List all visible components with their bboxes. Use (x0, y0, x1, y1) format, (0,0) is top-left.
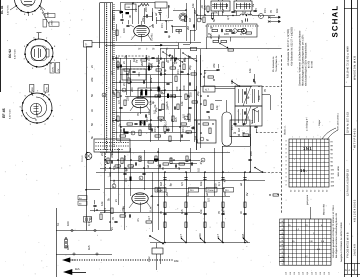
output transformer box (211, 1, 230, 11)
svg-text:110: 110 (323, 272, 326, 275)
terminal cross lower (268, 20, 271, 23)
dial scale outer right rail (112, 3, 114, 152)
svg-text:1N1: 1N1 (303, 146, 312, 151)
waveband wires (160, 49, 162, 60)
detector extras (208, 76, 214, 78)
output branch resistors (164, 202, 166, 208)
svg-text:3n: 3n (185, 158, 189, 162)
svg-text:8p: 8p (167, 34, 171, 38)
control box extra parts (238, 29, 244, 31)
ext fuse component (65, 237, 67, 248)
secondary box (230, 120, 250, 137)
svg-text:3n: 3n (136, 218, 140, 222)
svg-text:G: G (345, 269, 347, 272)
svg-text:G: G (352, 269, 354, 272)
mixer tube VA envelope (134, 25, 150, 36)
AM line solid y86 (200, 86, 252, 88)
audio mesh wires (104, 152, 106, 213)
tube V3 value box a (30, 85, 34, 93)
svg-text:10k: 10k (221, 210, 225, 215)
IF transformer T1 core arrow (243, 86, 251, 106)
svg-text:h: h (140, 177, 141, 180)
svg-text:220: 220 (223, 191, 227, 196)
tube socket V3 inner circle (30, 103, 41, 114)
svg-text:ECH81: ECH81 (151, 33, 154, 41)
tube V3 value box b (44, 85, 48, 93)
svg-text:0,1: 0,1 (250, 120, 254, 124)
svg-text:3n: 3n (200, 4, 204, 8)
svg-text:4,7: 4,7 (216, 234, 220, 238)
svg-text:gemessen: gemessen (306, 194, 309, 205)
IF transformer T2 core arrow (243, 106, 251, 126)
dial scale top cap (100, 2, 113, 4)
IF transformer T2 windings (238, 109, 240, 123)
svg-text:0,1: 0,1 (103, 208, 107, 212)
secondary box parts (233, 123, 236, 125)
tap junction wire (86, 189, 100, 191)
svg-text:100: 100 (122, 28, 126, 33)
top left feeder wires (196, 0, 198, 15)
voltage table vertical rules (288, 219, 290, 265)
svg-text:6V: 6V (251, 3, 255, 7)
svg-text:4,7: 4,7 (223, 178, 227, 182)
wire top c (144, 8, 146, 24)
top dark core a (120, 11, 124, 13)
svg-text:1M: 1M (221, 8, 225, 13)
oscillator coil box L1 (125, 4, 136, 10)
speaker field windings (236, 3, 238, 9)
lower left component box (84, 217, 92, 223)
svg-text:SCHAL: SCHAL (331, 5, 340, 38)
osc wires (116, 24, 118, 41)
waveband switch blades (163, 52, 169, 56)
edge table bottom cell rule a (347, 264, 349, 275)
svg-text:a2: a2 (182, 58, 186, 62)
pointer curve b (327, 130, 338, 140)
fuse in supply rail (191, 47, 197, 50)
ratio detector box (197, 120, 216, 143)
svg-text:1M: 1M (113, 92, 117, 97)
svg-text:0,1: 0,1 (217, 182, 221, 186)
svg-text:70: 70 (111, 216, 115, 220)
speaker line wire (150, 242, 250, 244)
svg-text:0,5: 0,5 (206, 198, 210, 202)
svg-text:2n: 2n (110, 227, 114, 231)
svg-text:W M 5 E 0 N. M K B: W M 5 E 0 N. M K B (353, 56, 356, 80)
svg-text:47k: 47k (90, 77, 94, 82)
wire top b (138, 6, 140, 24)
svg-text:50: 50 (90, 122, 94, 126)
left step wire d (183, 44, 190, 46)
svg-text:2M: 2M (186, 25, 190, 30)
mixer tube VA pin leads (131, 35, 135, 40)
svg-text:8p: 8p (119, 9, 123, 13)
edge table bottom cell rule b (354, 264, 356, 275)
dial scale ruler ticks (113, 4, 115, 6)
tube socket V2 side tab (46, 49, 50, 57)
svg-text:6V: 6V (154, 158, 158, 162)
svg-text:0,5: 0,5 (117, 100, 121, 104)
input trimmer a (120, 19, 123, 21)
core bar e (140, 121, 142, 126)
core bar f (144, 121, 146, 126)
svg-text:1M: 1M (241, 233, 245, 238)
svg-text:100: 100 (189, 92, 193, 97)
tube V1 pin value box a (45, 14, 55, 18)
svg-text:12k: 12k (149, 100, 153, 105)
svg-text:6V: 6V (159, 118, 163, 122)
svg-text:a2: a2 (177, 166, 181, 170)
audio cluster capacitors (111, 160, 113, 163)
IF cluster capacitors (120, 64, 122, 67)
speaker coil bumps (240, 14, 252, 15)
audio tube VC leads (140, 202, 142, 212)
mains entry box (152, 248, 163, 254)
coil tap wires (156, 20, 173, 22)
mains wires (156, 254, 158, 270)
svg-text:10k: 10k (199, 181, 203, 186)
svg-text:EF 45: EF 45 (2, 108, 6, 118)
tube V2 value box b (56, 63, 60, 74)
speaker line switch blades (182, 239, 187, 243)
pickup terminal (256, 129, 258, 134)
svg-text:0,1: 0,1 (164, 121, 168, 125)
osc resistor (116, 30, 118, 36)
svg-text:4,7: 4,7 (240, 32, 244, 36)
core bar d (158, 87, 160, 92)
svg-text:15n: 15n (150, 63, 154, 68)
tube socket V3 pin dots (51, 110, 53, 112)
mixer tube VA anode bar (138, 26, 146, 28)
IF cluster resistors (117, 62, 119, 68)
wire top h (173, 10, 186, 12)
svg-text:a2: a2 (240, 19, 244, 23)
svg-text:6V: 6V (138, 156, 142, 160)
svg-text:10k: 10k (275, 8, 279, 13)
supply rail wire y49 (160, 48, 282, 50)
IF filter core bar a (141, 90, 143, 96)
tube socket V2 inner envelope circle (31, 45, 46, 60)
lead wire to V1 boxes (40, 6, 45, 15)
svg-text:Masse 4W: Masse 4W (323, 203, 326, 215)
voltage table horizontal rules (284, 222, 331, 224)
svg-text:8p: 8p (159, 56, 163, 60)
tube socket V3 electrode detail bars (34, 106, 39, 108)
svg-text:2M: 2M (191, 125, 195, 130)
svg-text:Bei Abgleich beachten Seilfue: Bei Abgleich beachten Seilfuehrung Skala… (335, 212, 338, 258)
svg-text:52 W Nr. 257 0.53: 52 W Nr. 257 0.53 (347, 112, 350, 133)
tube socket V2 electrode bars (34, 49, 36, 57)
dotted feedback line (206, 26, 207, 27)
svg-text:0,1: 0,1 (87, 222, 91, 226)
svg-text:4,7: 4,7 (147, 216, 151, 220)
svg-text:1k5: 1k5 (180, 209, 184, 214)
svg-text:2n: 2n (124, 167, 128, 171)
tube socket V3 (EF45) outer circle (22, 93, 52, 123)
tube socket V2 pin dots (52, 56, 54, 58)
bus drop wire (178, 43, 180, 49)
pointer curve a (322, 128, 336, 139)
svg-text:3n: 3n (119, 128, 123, 132)
svg-text:6,3V 0,2A: 6,3V 0,2A (14, 49, 17, 59)
svg-text:3 M G 4 9: 3 M G 4 9 (353, 244, 356, 256)
svg-text:2n: 2n (90, 64, 94, 68)
electrolytic label box b (206, 188, 217, 193)
svg-text:12k: 12k (191, 3, 195, 8)
rotary switch circle (259, 14, 264, 19)
svg-text:2n: 2n (100, 152, 104, 156)
svg-text:3n: 3n (199, 161, 203, 165)
IF tube VB leads (140, 106, 142, 114)
svg-text:a2: a2 (146, 164, 150, 168)
lower left parts (93, 205, 96, 207)
svg-text:Skala 1:1: Skala 1:1 (284, 125, 287, 135)
svg-text:8p: 8p (118, 123, 122, 127)
anode rail wire y172 (96, 172, 264, 174)
svg-text:70: 70 (263, 88, 267, 92)
output terminal arrow lower (276, 20, 281, 22)
wire top d (152, 8, 154, 21)
svg-text:k: k (158, 189, 159, 192)
output terminal wire lower (268, 21, 276, 23)
secondary drop wire (250, 137, 252, 172)
tube V3 top leads (32, 92, 34, 96)
svg-text:47k: 47k (212, 63, 216, 68)
svg-text:15n: 15n (176, 69, 180, 74)
svg-text:1M: 1M (159, 181, 163, 186)
svg-text:6V: 6V (149, 77, 153, 81)
capacitor C2 (193, 24, 195, 27)
electrolytic lead (226, 100, 228, 112)
svg-text:0,5: 0,5 (254, 8, 258, 12)
wire top i (186, 3, 188, 41)
svg-text:30: 30 (128, 14, 132, 18)
speaker wire y15.5 (196, 15, 240, 17)
dial drum dotted row 1 (95, 142, 96, 143)
bus arrow mark (155, 45, 162, 47)
svg-text:220: 220 (144, 7, 148, 12)
svg-text:F 4 C65 49752 W. 4 B: F 4 C65 49752 W. 4 B (347, 232, 350, 258)
edge table rule x357 (357, 0, 359, 277)
resistor R1 (184, 16, 186, 22)
bus stub into schematic (86, 46, 92, 48)
svg-text:70: 70 (136, 112, 140, 116)
svg-text:15n: 15n (181, 127, 185, 132)
tone network resistor Rc (228, 49, 234, 51)
svg-text:15n: 15n (137, 72, 141, 77)
voltage table callout line (310, 207, 312, 219)
svg-text:1k5: 1k5 (230, 79, 234, 84)
svg-text:30: 30 (253, 80, 257, 84)
svg-text:245V: 245V (46, 11, 49, 17)
svg-text:220: 220 (126, 96, 130, 101)
svg-text:a2: a2 (205, 192, 209, 196)
switch S2 blade (255, 168, 262, 173)
svg-text:0,5: 0,5 (181, 114, 185, 118)
right mid wires (196, 86, 198, 150)
core bar c (148, 66, 150, 71)
svg-text:0,5: 0,5 (124, 178, 128, 182)
pilot lamp L1 (85, 153, 92, 160)
svg-text:47k: 47k (177, 29, 181, 34)
svg-text:100: 100 (147, 124, 151, 129)
tube socket V1 pin leads (10, 6, 16, 10)
dial chart vertical rules (292, 139, 294, 187)
svg-text:TA-Anschluss 2x: TA-Anschluss 2x (275, 55, 278, 72)
detector parts box (203, 86, 215, 92)
svg-text:PU-Seilweite 4x: PU-Seilweite 4x (272, 56, 275, 72)
svg-text:EL41: EL41 (150, 206, 153, 212)
svg-text:10k: 10k (257, 95, 261, 100)
control box inner parts (212, 29, 218, 31)
mixer tube VA grid bars (137, 28, 147, 30)
svg-text:100: 100 (110, 150, 114, 155)
speaker field box (234, 1, 252, 11)
wire top f (120, 3, 122, 14)
svg-text:Tr: Tr (85, 43, 87, 46)
edge table top divider (344, 8, 357, 10)
under-can parts (243, 134, 249, 136)
heater bus wire upper (92, 42, 201, 44)
svg-text:2M: 2M (165, 191, 169, 196)
svg-text:0,1: 0,1 (111, 118, 115, 122)
wire top g (168, 5, 170, 18)
detector cluster parts (204, 100, 206, 106)
svg-text:-2V: -2V (57, 68, 60, 72)
top rail wire (120, 2, 155, 4)
tone network resistor Ra (213, 40, 219, 42)
svg-text:30: 30 (167, 4, 171, 8)
heater bus terminal box (84, 41, 93, 48)
svg-text:1k5: 1k5 (87, 245, 91, 250)
dial drum dotted row 2 (95, 145, 96, 146)
svg-text:49 752: 49 752 (308, 60, 311, 68)
svg-text:110: 110 (285, 272, 288, 275)
IF stage mesh wires (116, 55, 118, 140)
svg-text:15n: 15n (263, 8, 267, 13)
svg-text:a2: a2 (207, 115, 211, 119)
electrolytic label box a (155, 188, 166, 193)
output transformer windings (214, 3, 216, 9)
svg-text:6V: 6V (195, 139, 199, 143)
svg-text:100: 100 (182, 85, 186, 90)
svg-text:110: 110 (315, 272, 318, 275)
svg-text:49 T Y P E 4 0 5: 49 T Y P E 4 0 5 (353, 128, 356, 148)
svg-text:0,5: 0,5 (112, 166, 116, 170)
top right knot parts (207, 6, 209, 12)
oscillator solid box (122, 69, 146, 80)
svg-text:1k5: 1k5 (75, 267, 80, 271)
svg-text:100: 100 (214, 183, 218, 188)
anode rail dashed continuation (264, 172, 282, 174)
svg-text:3n: 3n (239, 210, 243, 214)
wire top e (160, 14, 162, 21)
core bar j (130, 177, 132, 182)
svg-text:70: 70 (233, 131, 237, 135)
audio tube VC envelope (132, 193, 148, 204)
svg-text:2n: 2n (145, 56, 149, 60)
svg-text:TA: TA (57, 223, 60, 226)
svg-text:8p: 8p (169, 183, 173, 187)
band filter box (155, 2, 167, 8)
tube socket V2 outer circle (25, 39, 53, 67)
svg-text:2M: 2M (111, 55, 115, 60)
volume pot circle (197, 18, 201, 22)
pilot lamp lead kink (86, 151, 89, 154)
svg-text:70: 70 (233, 9, 237, 13)
tuning coil L2 zigzag (140, 4, 149, 7)
trimmer capacitor C1 (158, 10, 161, 12)
svg-text:6,3V 0,7A: 6,3V 0,7A (7, 5, 10, 15)
svg-text:O.R.13.8 13.56 a: O.R.13.8 13.56 a (337, 113, 340, 130)
svg-text:3n: 3n (90, 108, 94, 112)
switch wafer letter circle (233, 29, 237, 33)
svg-text:EF41: EF41 (148, 109, 151, 115)
svg-text:15n: 15n (230, 125, 234, 130)
svg-text:2M: 2M (166, 105, 170, 110)
svg-text:10k: 10k (126, 73, 130, 78)
core bar g (124, 132, 129, 134)
left step wire a (196, 16, 198, 31)
svg-text:0,5: 0,5 (116, 164, 120, 168)
dial scale inner rail (104, 3, 106, 150)
svg-text:10k: 10k (174, 259, 179, 263)
edge table rule x344 (344, 0, 346, 277)
edge table divider c (344, 134, 351, 136)
dial scale right rail (110, 3, 112, 151)
svg-text:12 F4 0 R.4 SUPER 53: 12 F4 0 R.4 SUPER 53 (347, 169, 350, 196)
output branch capacitors (163, 213, 166, 215)
svg-text:0,1: 0,1 (203, 70, 207, 74)
svg-text:15n: 15n (112, 15, 116, 20)
IF transformer can T2 box (235, 106, 262, 126)
svg-text:12k: 12k (100, 201, 104, 206)
svg-text:250V: 250V (50, 20, 53, 26)
tap label box a (78, 196, 87, 200)
left feeder wire x86 (86, 47, 88, 231)
dial cord dotted run (106, 3, 107, 4)
svg-text:110: 110 (293, 272, 296, 275)
electrolytic label box c (189, 188, 199, 193)
mixer tube VA cathode lead (141, 34, 143, 41)
tube V1 pin value box b (49, 22, 59, 26)
dial scale left rail (99, 3, 101, 48)
output terminal wire upper (268, 17, 276, 19)
svg-text:4,7: 4,7 (205, 88, 209, 92)
svg-text:1M: 1M (237, 127, 241, 132)
tube socket V2 (ECH81) top lead (38, 33, 40, 39)
input trimmer b (126, 25, 129, 27)
svg-text:100: 100 (155, 57, 159, 62)
IF tube VB envelope (132, 97, 148, 108)
heater bus wire lower (105, 45, 178, 47)
wire top j (194, 8, 196, 41)
svg-text:15n: 15n (145, 117, 149, 122)
svg-text:1M: 1M (188, 17, 192, 22)
svg-text:4 B 1 2 E 4 0 5 0 5: 4 B 1 2 E 4 0 5 0 5 (353, 199, 356, 222)
svg-text:sind zulaessig bei 220V Netzan: sind zulaessig bei 220V Netzanschluss (305, 42, 308, 86)
IF filter core bar b (145, 90, 147, 96)
edge table bottom divider 1 (344, 263, 360, 265)
svg-text:10k: 10k (217, 34, 221, 39)
IF tube VB grid bars (135, 100, 145, 102)
fold line vertical dashed (281, 55, 283, 213)
svg-text:15n: 15n (160, 23, 164, 28)
tube socket V1 inner envelope (21, 0, 35, 6)
svg-text:0,5: 0,5 (171, 62, 175, 66)
top feeder dots (196, 14, 197, 15)
can lower lead (222, 146, 224, 172)
